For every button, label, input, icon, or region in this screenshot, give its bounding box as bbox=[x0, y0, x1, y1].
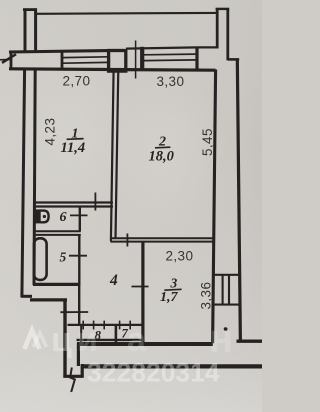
watermark logo chevron 2 bbox=[34, 333, 47, 347]
break line to left edge bbox=[0, 58, 10, 60]
break slash bbox=[2, 54, 16, 63]
svg-text:5,45: 5,45 bbox=[200, 128, 215, 156]
dimension extension line bbox=[135, 41, 137, 79]
window W2 right jamb bbox=[195, 47, 198, 70]
closet tick 1 bbox=[82, 321, 84, 330]
svg-text:2,30: 2,30 bbox=[166, 249, 194, 264]
wall: NE step bbox=[228, 58, 239, 61]
label room 3 bar bbox=[164, 288, 181, 291]
svg-text:н: н bbox=[209, 317, 233, 361]
wall: closets top line bbox=[68, 324, 142, 326]
wall: room1 south line b bbox=[34, 205, 113, 207]
break zigzag bbox=[70, 368, 75, 393]
svg-text:а: а bbox=[127, 321, 147, 359]
window W1 pane line 2 bbox=[63, 61, 108, 64]
svg-text:и: и bbox=[77, 321, 98, 359]
wall: SW lobby north bbox=[30, 298, 67, 301]
svg-text:3,36: 3,36 bbox=[199, 282, 214, 310]
wall pier between windows bbox=[109, 51, 126, 72]
vent shaft box top bbox=[214, 274, 240, 276]
vent shaft hatch 2 bbox=[228, 275, 230, 305]
wall: apartment south band bbox=[77, 342, 213, 346]
closet tick 3 bbox=[103, 321, 105, 330]
wall: entry west bbox=[63, 299, 66, 378]
label room 2 bar bbox=[155, 146, 170, 149]
wall: bath south bbox=[33, 283, 79, 286]
wall: left outer face upper bbox=[24, 8, 27, 52]
svg-text:5: 5 bbox=[60, 250, 67, 265]
svg-text:6: 6 bbox=[60, 210, 67, 225]
window W2 left jamb bbox=[140, 47, 144, 70]
window W2 pane line 1 bbox=[144, 53, 196, 56]
door tick entry bbox=[60, 311, 88, 313]
shaft dot bbox=[224, 327, 228, 330]
svg-text:18,0: 18,0 bbox=[149, 149, 174, 165]
wall: closet divider bbox=[115, 326, 118, 343]
wall: south band left connector bbox=[77, 343, 80, 366]
window W2 top line bbox=[126, 47, 197, 48]
watermark logo chevron 1 bbox=[25, 330, 40, 349]
wall: closet left end bbox=[80, 326, 82, 343]
wall: east outer foot to edge bbox=[237, 340, 263, 343]
wall: SW corner out bbox=[21, 295, 32, 298]
svg-text:11,4: 11,4 bbox=[61, 140, 86, 156]
wall: east outer bbox=[237, 59, 240, 343]
window W1 pane line 1 bbox=[63, 56, 108, 59]
wall: wc east bbox=[79, 207, 81, 232]
watermark word bbox=[51, 317, 233, 361]
wall: room2 right bbox=[213, 70, 216, 344]
wall: room3 west bbox=[141, 242, 144, 344]
toilet dot bbox=[43, 215, 46, 218]
svg-text:ц: ц bbox=[51, 321, 72, 359]
svg-text:322820314: 322820314 bbox=[87, 358, 220, 388]
window W1 left jamb bbox=[61, 51, 64, 69]
svg-text:4: 4 bbox=[109, 272, 118, 289]
svg-text:3,30: 3,30 bbox=[157, 74, 185, 89]
door tick room3 bbox=[132, 286, 149, 288]
door tick wc bbox=[70, 214, 88, 216]
vent shaft hatch 1 bbox=[222, 275, 224, 305]
wall: left outer face lower bbox=[22, 68, 25, 298]
wall: closets bottom line bbox=[77, 339, 142, 341]
wall: left inner face lower bbox=[34, 68, 35, 285]
wall: entry bottom riser bbox=[81, 364, 84, 378]
wall: hall west bbox=[78, 286, 80, 327]
wall: lintel to NE pier bbox=[197, 46, 218, 48]
wall: wc/bath divider line b bbox=[33, 234, 81, 236]
wall: room1/room2 partition line b bbox=[116, 70, 119, 239]
wall: room1/room2 partition line a bbox=[111, 70, 114, 242]
toilet tank bbox=[34, 210, 40, 223]
wall: window sill bottom line full bbox=[9, 69, 216, 70]
svg-text:2,70: 2,70 bbox=[63, 74, 91, 89]
wall: building south band bbox=[82, 364, 263, 368]
vent shaft box bottom bbox=[214, 304, 240, 306]
wall: room2 south line a bbox=[110, 237, 214, 239]
wall: NE pier cap bbox=[216, 8, 230, 10]
wall: entry bottom bbox=[63, 375, 83, 378]
door tick bath bbox=[69, 255, 87, 257]
toilet bowl bbox=[41, 211, 49, 223]
closet tick 5 bbox=[129, 321, 131, 330]
wall: top-left pier cap bbox=[23, 8, 37, 11]
wall: room1 south line a bbox=[34, 201, 113, 203]
window W2 pane line 2 bbox=[144, 59, 196, 62]
roof thin line top bbox=[36, 12, 217, 15]
bathtub bbox=[34, 238, 47, 280]
wall: NE pier right face bbox=[226, 9, 229, 61]
wall: left inner face upper bbox=[34, 8, 37, 52]
door tick room2 bbox=[126, 234, 128, 247]
wall: wc/bath divider line a bbox=[33, 230, 81, 232]
wall: bath east bbox=[78, 235, 80, 286]
closet tick 4 bbox=[119, 321, 121, 330]
paper blotches bbox=[0, 50, 140, 230]
closet tick 2 bbox=[93, 321, 95, 330]
svg-text:3: 3 bbox=[170, 276, 178, 291]
wall: west bar left end cap bbox=[10, 51, 13, 70]
svg-text:1,7: 1,7 bbox=[160, 290, 179, 305]
wall: NE pier left face bbox=[216, 9, 219, 49]
label room 1 bar bbox=[67, 138, 84, 141]
wall: room2 south line b bbox=[110, 241, 214, 243]
door tick room1 bbox=[94, 193, 96, 211]
svg-text:4,23: 4,23 bbox=[43, 118, 58, 146]
wall: west bar top line bbox=[9, 51, 109, 52]
